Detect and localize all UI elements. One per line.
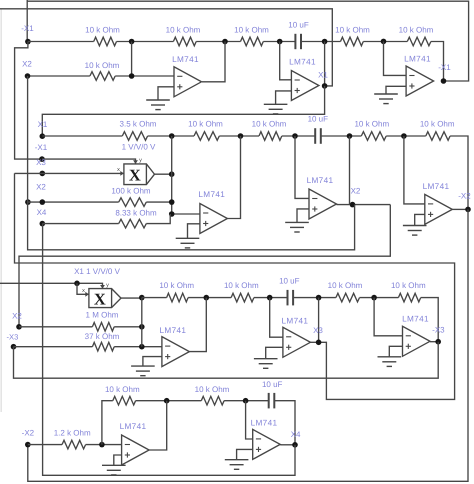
- svg-text:y: y: [139, 158, 142, 164]
- op-amp U8 LM741 (inverter, output -X3): [403, 326, 431, 356]
- svg-text:-X3: -X3: [432, 326, 445, 335]
- svg-text:X2: X2: [12, 312, 22, 321]
- ground G8: [254, 358, 278, 360]
- wire: X2 column (output to top row): [349, 136, 351, 205]
- wire: -X3 route down and left to row3 input: [14, 342, 439, 379]
- node 1M junction: [139, 324, 145, 330]
- node -X1 (input node row1): [25, 39, 31, 45]
- svg-text:LM741: LM741: [289, 58, 316, 67]
- wire: U8 inverting input: [374, 298, 402, 336]
- wire: U5 output: [452, 208, 468, 210]
- resistor R11 10 k Ohm (feedback U5): [426, 132, 450, 141]
- resistor R14 10 k Ohm (feedback U6): [167, 293, 189, 302]
- svg-text:x: x: [82, 288, 85, 294]
- ground G1: [146, 99, 170, 101]
- wire: C4 to X4 output column: [274, 401, 295, 445]
- wire: R11 to -X2 output: [450, 136, 468, 209]
- wire: 8.33k bend up to summing node: [146, 214, 170, 224]
- wire: U7 inverting input: [270, 298, 283, 338]
- node X2 row1 input: [25, 73, 31, 79]
- op-amp U1 LM741: [174, 67, 202, 97]
- resistor R1 10 k Ohm: [94, 37, 117, 46]
- wire: A2 x branch: [77, 283, 89, 294]
- node U10 summing: [243, 398, 249, 404]
- wire: to U1c inverting input: [384, 41, 407, 75]
- wire: R5 to -X1 output: [431, 42, 444, 82]
- op-amp U7 LM741 (integrator, output X3): [283, 327, 311, 357]
- resistor R15 10 k Ohm: [231, 293, 254, 302]
- op-amp U6 LM741 (summing): [162, 337, 190, 367]
- wire: U9 + to ground: [114, 455, 122, 465]
- op-amp U4 LM741 (integrator, output X2): [309, 189, 337, 219]
- node -X2 output: [465, 207, 471, 213]
- resistor R6 10 k Ohm: [90, 72, 115, 81]
- wire: X1 feed from left edge to multiplier A2: [0, 283, 103, 288]
- wire: -X2 route down right edge and bottom to row4 input: [28, 209, 468, 481]
- multiplier A1 (1 V/V/0 V): [124, 164, 155, 185]
- node -X2 row4 input: [25, 442, 31, 448]
- svg-text:LM741: LM741: [120, 422, 147, 431]
- svg-text:X2: X2: [22, 60, 32, 69]
- resistor R12 100 k Ohm: [119, 198, 147, 207]
- ground G5: [285, 221, 309, 223]
- svg-text:37 k Ohm: 37 k Ohm: [85, 332, 120, 341]
- svg-text:10 k Ohm: 10 k Ohm: [224, 281, 259, 290]
- svg-text:X: X: [94, 290, 106, 309]
- wire: -X1 to multiplier A1 y input: [42, 159, 136, 164]
- node X3 output: [316, 340, 322, 346]
- wire: U10 output: [280, 444, 295, 446]
- node X2 output: [350, 202, 356, 208]
- node X2 row2 stub: [40, 199, 46, 205]
- op-amp U2 LM741 (integrator, output X1): [291, 71, 319, 101]
- wire: A1 output to summing column: [155, 173, 172, 175]
- op-amp U1c LM741 (inverter, output -X1): [406, 66, 434, 96]
- svg-text:X: X: [129, 166, 141, 185]
- capacitor C2 10 uF: [314, 128, 316, 144]
- wire: U3 summing column: [172, 136, 200, 214]
- wire: U1 feedback down: [202, 42, 225, 82]
- svg-text:LM741: LM741: [251, 419, 278, 428]
- svg-text:10 k Ohm: 10 k Ohm: [335, 26, 370, 35]
- svg-text:100 k Ohm: 100 k Ohm: [111, 187, 150, 196]
- wire: left pale window border: [0, 9, 2, 412]
- wire: U3 output up: [227, 136, 240, 219]
- svg-text:10 k Ohm: 10 k Ohm: [195, 385, 230, 394]
- wire: A2 output: [121, 297, 142, 299]
- ground G3: [374, 93, 398, 95]
- node X2 row3 input: [16, 324, 22, 330]
- wire: U5 + to ground: [415, 214, 425, 225]
- svg-text:10 k Ohm: 10 k Ohm: [85, 26, 120, 35]
- node X3 top: [316, 295, 322, 301]
- svg-text:10 uF: 10 uF: [308, 115, 329, 124]
- wire: U10 + to ground: [237, 449, 253, 459]
- ground G11: [225, 459, 249, 461]
- svg-text:1 M Ohm: 1 M Ohm: [86, 311, 119, 320]
- svg-text:LM741: LM741: [404, 55, 431, 64]
- svg-text:10 k Ohm: 10 k Ohm: [85, 61, 120, 70]
- wire: U4 inverting input: [295, 136, 309, 198]
- node X1 row3: [74, 281, 80, 287]
- node X1 top: [322, 39, 328, 45]
- wire: X4 row: [42, 223, 118, 225]
- svg-text:8.33 k Ohm: 8.33 k Ohm: [115, 209, 157, 218]
- svg-text:10 k Ohm: 10 k Ohm: [234, 26, 269, 35]
- svg-text:-X2: -X2: [22, 429, 35, 438]
- ground G2: [264, 103, 288, 105]
- node -X3 row3 input: [11, 344, 17, 350]
- resistor R3 10 k Ohm: [241, 37, 264, 46]
- wire: U4 + to ground: [297, 209, 309, 223]
- node U3 output top: [238, 133, 244, 139]
- svg-text:10 k Ohm: 10 k Ohm: [399, 26, 434, 35]
- resistor R21 10 k Ohm (feedback U9): [113, 396, 136, 405]
- svg-text:-X2: -X2: [458, 192, 471, 201]
- capacitor C3 10 uF: [287, 290, 289, 306]
- node 37k junction / U6 summing: [139, 344, 145, 350]
- op-amp U9 LM741: [122, 435, 150, 465]
- resistor R13 8.33 k Ohm: [119, 219, 147, 228]
- node U4 summing: [292, 133, 298, 139]
- svg-text:-X1: -X1: [21, 24, 34, 33]
- wire: U7 output / X3 column: [310, 341, 318, 343]
- node X1 output: [322, 83, 328, 89]
- wire: U7 + to ground: [266, 347, 283, 358]
- wire: X1 output column up: [324, 42, 326, 86]
- svg-text:10 k Ohm: 10 k Ohm: [159, 281, 194, 290]
- wire: U3 + to ground: [188, 224, 200, 239]
- node X3 row2 input: [40, 171, 46, 177]
- wire: -X1 jog down to row2 -X1 input: [15, 42, 42, 160]
- svg-text:X1 1 V/V/0 V: X1 1 V/V/0 V: [74, 267, 120, 276]
- ground G4: [176, 237, 200, 239]
- resistor R7 3.5 k Ohm: [122, 132, 147, 141]
- svg-text:LM741: LM741: [198, 190, 225, 199]
- wire: junction column: [131, 42, 133, 77]
- svg-text:-X1: -X1: [438, 63, 451, 72]
- wire: X3 loop (row2 X3 column down, across, right edge down, to X3 output): [15, 173, 455, 399]
- svg-text:X2: X2: [36, 183, 46, 192]
- svg-text:10 uF: 10 uF: [279, 277, 300, 286]
- svg-text:X1: X1: [38, 120, 48, 129]
- wire: X1 bus at y=8.8 to left edge (cropped): [0, 9, 332, 86]
- node U3 top junction: [169, 133, 175, 139]
- resistor R18 1 M Ohm: [92, 323, 114, 332]
- svg-text:y: y: [106, 283, 109, 289]
- svg-text:10 k Ohm: 10 k Ohm: [252, 120, 287, 129]
- wire: R17 to -X3 output: [421, 298, 439, 342]
- node U5 summing top: [401, 133, 407, 139]
- node U8 summing top: [371, 295, 377, 301]
- multiplier A1 x-input arrow: [120, 171, 124, 176]
- wire: top feedback bus -X1 (from op-amp U3 output right side up and across): [27, 1, 468, 81]
- svg-text:LM741: LM741: [172, 55, 199, 64]
- svg-text:-X3: -X3: [6, 333, 18, 342]
- op-amp U3 LM741 (summing): [200, 204, 228, 234]
- node row1b junction: [129, 73, 135, 79]
- svg-text:LM741: LM741: [423, 182, 450, 191]
- ground G6: [403, 225, 427, 227]
- wire: U5 inverting input: [404, 136, 425, 204]
- op-amp U5 LM741 (inverter, output -X2): [425, 194, 453, 224]
- capacitor C4 10 uF: [268, 393, 270, 409]
- wire: X2 input row to U1: [28, 75, 90, 77]
- op-amp U10 LM741 (integrator, output X4): [253, 429, 281, 459]
- svg-text:10 k Ohm: 10 k Ohm: [166, 26, 201, 35]
- svg-text:-X1: -X1: [35, 143, 48, 152]
- resistor R22 10 k Ohm: [201, 396, 224, 405]
- svg-text:LM741: LM741: [282, 317, 309, 326]
- node -X3 output: [435, 339, 441, 345]
- wire: U9 output up: [149, 401, 167, 450]
- svg-text:10 k Ohm: 10 k Ohm: [105, 385, 140, 394]
- wire: U9 feedback loop up: [102, 401, 113, 445]
- wire: U4 output to X2 node: [337, 204, 391, 206]
- node U3 summing junction: [169, 211, 175, 217]
- resistor R16 10 k Ohm: [336, 293, 360, 302]
- svg-text:10 k Ohm: 10 k Ohm: [328, 281, 363, 290]
- wire: to U2 inverting input: [280, 42, 292, 80]
- svg-text:LM741: LM741: [160, 326, 187, 335]
- wire: X1 down to row2 X1 input: [42, 86, 324, 136]
- ground G10: [102, 464, 126, 466]
- wire: X4 route down, left, and up to row2 X4 input: [43, 224, 295, 476]
- node 100k junction: [169, 199, 175, 205]
- wire: row2 top: [42, 135, 122, 137]
- node -X1 output: [441, 78, 447, 84]
- node U1c summing: [381, 39, 387, 45]
- wire: U1c + to ground: [386, 86, 406, 94]
- wire: row1 summing segment: [28, 41, 94, 43]
- node A1 output junction: [169, 171, 175, 177]
- node A2 output / U6 top junction: [139, 295, 145, 301]
- svg-text:10 k Ohm: 10 k Ohm: [420, 120, 455, 129]
- node X2 row2 tap: [25, 199, 31, 205]
- wire: X2 route L1 to left column up to row1 X2: [28, 76, 355, 250]
- svg-text:1 V/V/0 V: 1 V/V/0 V: [122, 143, 156, 152]
- capacitor C1 10 uF: [294, 34, 296, 49]
- node X4 output: [292, 442, 298, 448]
- node X1 row2 input: [40, 133, 46, 139]
- node U2 summing: [277, 39, 283, 45]
- resistor R5 10 k Ohm (feedback): [407, 37, 431, 46]
- svg-text:X1: X1: [318, 71, 328, 80]
- svg-text:10 k Ohm: 10 k Ohm: [354, 120, 389, 129]
- wire: U6 output up: [189, 298, 206, 352]
- wire: U10 inverting input: [246, 401, 253, 439]
- svg-text:X4: X4: [291, 430, 301, 439]
- multiplier A2 (X1 squared): [89, 289, 121, 308]
- svg-text:x: x: [117, 167, 120, 173]
- wire: X3 row into multiplier A1 x input, and X3 loop from output via big route: [15, 172, 124, 174]
- svg-text:X2: X2: [351, 187, 361, 196]
- wire: row3 main: [142, 297, 167, 299]
- wire: U6 + to ground: [143, 357, 162, 367]
- node U6 output top: [204, 295, 210, 301]
- wire: X2 row2 input row: [28, 201, 119, 203]
- svg-text:X3: X3: [36, 158, 46, 167]
- svg-text:10 uF: 10 uF: [262, 380, 283, 389]
- resistor R17 10 k Ohm (feedback U8): [398, 293, 420, 302]
- svg-text:3.5 k Ohm: 3.5 k Ohm: [120, 120, 157, 129]
- svg-text:10 k Ohm: 10 k Ohm: [391, 281, 426, 290]
- resistor R2 10 k Ohm (feedback U1): [173, 37, 196, 46]
- svg-text:10 k Ohm: 10 k Ohm: [188, 120, 223, 129]
- node U9 output top: [164, 398, 170, 404]
- wire: U1 + to ground: [158, 87, 174, 100]
- node U9 summing: [99, 442, 105, 448]
- node row1 junction: [129, 39, 135, 45]
- svg-text:10 uF: 10 uF: [288, 21, 309, 30]
- node U1 output top: [222, 39, 228, 45]
- wire: row4 main: [28, 444, 62, 446]
- node X2 top: [347, 133, 353, 139]
- wire: U6 summing column: [141, 298, 143, 347]
- ground G7: [131, 365, 155, 367]
- wire: U2 + to ground: [276, 91, 292, 104]
- ground G9: [378, 356, 402, 358]
- resistor R4 10 k Ohm: [341, 37, 364, 46]
- svg-text:X4: X4: [37, 208, 47, 217]
- node -X1 row2 input: [39, 156, 45, 162]
- node U7 summing: [267, 295, 273, 301]
- resistor R8 10 k Ohm (feedback U3): [194, 132, 219, 141]
- node X4 row2 input: [40, 221, 46, 227]
- multiplier A1 y-input arrow: [133, 160, 138, 164]
- svg-text:X3: X3: [313, 326, 323, 335]
- wire: U8 + to ground: [389, 346, 402, 357]
- wire: X2 row3 row: [19, 326, 92, 328]
- resistor R20 1.2 k Ohm: [62, 440, 86, 449]
- wire: U8 output: [430, 341, 438, 343]
- resistor R9 10 k Ohm: [259, 132, 282, 141]
- svg-text:LM741: LM741: [402, 315, 429, 324]
- svg-text:1.2 k Ohm: 1.2 k Ohm: [54, 429, 91, 438]
- multiplier A2 y-input arrow: [100, 285, 105, 289]
- resistor R10 10 k Ohm: [361, 132, 386, 141]
- svg-text:LM741: LM741: [307, 176, 334, 185]
- wire: -X3 row: [14, 346, 93, 348]
- wire: vertical stub into node -X1 from top edge: [26, 0, 28, 42]
- wire: X2 route L2 to row3 X2 input: [19, 205, 390, 327]
- resistor R19 37 k Ohm: [92, 342, 114, 351]
- multiplier A2 x-input arrow: [85, 292, 89, 297]
